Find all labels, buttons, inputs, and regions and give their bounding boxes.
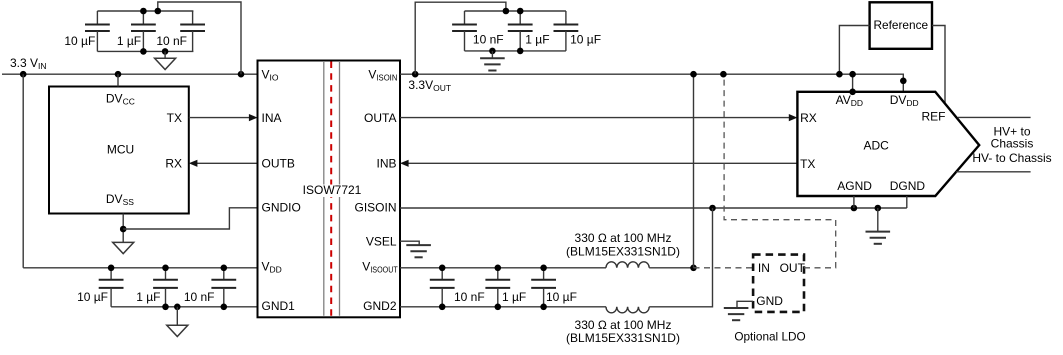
svg-text:GND1: GND1 xyxy=(262,299,296,313)
wire DVCC stub xyxy=(117,74,119,86)
svg-text:RX: RX xyxy=(165,157,182,171)
svg-text:330 Ω at 100 MHz: 330 Ω at 100 MHz xyxy=(575,318,672,332)
pin label VSEL xyxy=(366,234,397,248)
pin label VIO xyxy=(262,67,279,82)
svg-text:OUT: OUT xyxy=(780,261,806,275)
reference U4 box xyxy=(870,2,932,49)
capacitor C5 1uF VDD xyxy=(136,268,178,307)
isolation barrier red dashed line xyxy=(330,62,332,317)
ground output cap bank earth xyxy=(480,51,505,71)
ground LDO earth xyxy=(724,308,749,320)
junction output bank bottom C8 xyxy=(517,48,524,55)
pin label REF xyxy=(922,110,946,124)
svg-text:RX: RX xyxy=(800,111,817,125)
value label FB2 line2 xyxy=(566,331,680,345)
pin label ADC RX xyxy=(800,111,817,125)
svg-text:GNDIO: GNDIO xyxy=(262,201,301,215)
value label FB1 line2 xyxy=(566,244,680,258)
svg-text:OUTB: OUTB xyxy=(262,157,295,171)
junction input bank bottom C2 xyxy=(140,48,147,55)
svg-text:GISOIN: GISOIN xyxy=(354,201,396,215)
pin label DVSS xyxy=(106,192,134,207)
svg-text:10 µF: 10 µF xyxy=(77,290,108,304)
junction VISOOUT C12 xyxy=(540,265,547,272)
label ADC xyxy=(864,138,890,152)
wire AVDD stub xyxy=(852,74,854,92)
junction input bank top C2 xyxy=(140,8,147,15)
junction AVDD at rail xyxy=(849,71,856,78)
junction VDD C6 xyxy=(221,265,228,272)
wire output cap bank top bus xyxy=(465,10,566,12)
junction output bank top feed xyxy=(503,8,510,15)
junction 3.3VOUT Reference branch xyxy=(836,71,843,78)
pin label MCU RX xyxy=(165,157,182,171)
ground VSEL earth xyxy=(406,245,431,257)
wire dashed LDO OUT to 3.3VOUT xyxy=(724,74,836,268)
svg-text:10 nF: 10 nF xyxy=(184,290,215,304)
wire VSEL to ground xyxy=(400,241,419,245)
value label FB1 line1 xyxy=(575,231,672,245)
svg-text:AGND: AGND xyxy=(837,179,872,193)
svg-text:OUTA: OUTA xyxy=(364,111,396,125)
ground GND1 bank xyxy=(167,307,188,337)
isolation barrier left line xyxy=(323,62,325,316)
junction 3.3VIN / VDD branch xyxy=(20,71,27,78)
wire FB2 out to GISOIN xyxy=(649,208,712,307)
label HV+ to Chassis xyxy=(991,124,1034,150)
junction GND2 C10 xyxy=(439,304,446,311)
pin label GISOIN xyxy=(354,201,396,215)
svg-text:1 µF: 1 µF xyxy=(117,34,141,48)
wire OUTA to ADC RX xyxy=(400,114,797,121)
capacitor C1 10uF input xyxy=(64,11,109,51)
wire AGND stub xyxy=(853,196,855,208)
junction VDD C4 xyxy=(108,265,115,272)
ferrite bead FB1 VISOOUT xyxy=(606,262,649,268)
svg-text:VSEL: VSEL xyxy=(366,234,397,248)
net GND2 rail xyxy=(400,306,606,308)
svg-text:IN: IN xyxy=(758,261,770,275)
wire dashed bead to LDO IN xyxy=(694,267,754,269)
svg-text:DGND: DGND xyxy=(890,179,926,193)
capacitor C3 10nF input xyxy=(156,11,205,51)
ferrite bead FB2 GND2 xyxy=(606,307,649,313)
wire input cap bank feed xyxy=(158,2,241,74)
ground input cap bank xyxy=(155,51,176,69)
capacitor C2 1uF input xyxy=(117,11,156,51)
net VDD rail xyxy=(23,267,257,269)
pin label OUTA xyxy=(364,111,396,125)
pin label LDO IN xyxy=(758,261,770,275)
junction input bank bottom gnd stub xyxy=(162,48,169,55)
junction 3.3VOUT riser xyxy=(690,71,697,78)
wire 3.3VIN down to VDD rail xyxy=(22,74,24,268)
wire ADC TX to INB xyxy=(400,160,797,167)
svg-text:1 µF: 1 µF xyxy=(502,290,526,304)
net GND1 rail xyxy=(111,306,257,308)
ground ADC earth xyxy=(866,208,891,244)
pin label GND1 xyxy=(262,299,296,313)
svg-text:HV- to Chassis: HV- to Chassis xyxy=(972,151,1051,165)
pin label INB xyxy=(376,157,396,171)
ground DVSS xyxy=(113,242,134,253)
junction VISOOUT C11 xyxy=(495,265,502,272)
capacitor C7 10nF VISOIN xyxy=(452,11,503,51)
pin label DVCC xyxy=(106,91,135,106)
svg-text:ISOW7721: ISOW7721 xyxy=(303,183,362,197)
svg-text:10 nF: 10 nF xyxy=(156,34,187,48)
svg-text:1 µF: 1 µF xyxy=(525,32,549,46)
svg-text:MCU: MCU xyxy=(107,143,134,157)
node 3.3VOUT label xyxy=(408,78,451,93)
junction AVDD at ADC edge xyxy=(849,89,856,96)
pin label ADC TX xyxy=(800,157,815,171)
pin label VISOOUT xyxy=(362,260,398,275)
svg-text:10 nF: 10 nF xyxy=(473,32,504,46)
svg-text:TX: TX xyxy=(800,157,815,171)
pin label VISOIN xyxy=(368,67,397,82)
isolation barrier right line xyxy=(339,62,341,316)
svg-text:10 µF: 10 µF xyxy=(64,34,95,48)
pin label LDO OUT xyxy=(780,261,806,275)
node 3.3VIN label xyxy=(10,56,47,71)
pin label DVDD xyxy=(890,93,919,108)
svg-text:ADC: ADC xyxy=(864,138,890,152)
svg-text:(BLM15EX331SN1D): (BLM15EX331SN1D) xyxy=(566,331,680,345)
pin label DGND xyxy=(890,179,926,193)
net VISOOUT rail xyxy=(400,267,606,269)
wire DGND stub xyxy=(906,196,908,208)
junction VDD C5 xyxy=(162,265,169,272)
wire OUTB to RX xyxy=(189,160,258,167)
junction 3.3VIN at MCU DVCC xyxy=(115,71,122,78)
pin label GND2 xyxy=(363,299,397,313)
junction 3.3VIN at input cap bank feed xyxy=(238,71,245,78)
svg-text:Chassis: Chassis xyxy=(991,136,1034,150)
label Reference xyxy=(874,18,929,32)
capacitor C9 10uF VISOIN xyxy=(554,11,602,51)
junction input bank top feed xyxy=(155,8,162,15)
wire input cap bank top bus xyxy=(97,10,193,12)
net GISOIN to ADC grounds xyxy=(400,207,907,209)
capacitor C4 10uF VDD xyxy=(77,268,123,307)
net 3.3VIN rail xyxy=(2,73,258,75)
junction GND2 C12 xyxy=(540,304,547,311)
junction FB1 out / riser xyxy=(690,265,697,272)
value label FB2 line1 xyxy=(575,318,672,332)
svg-text:10 nF: 10 nF xyxy=(454,290,485,304)
junction GISOIN at AGND xyxy=(851,205,858,212)
svg-text:INA: INA xyxy=(262,111,282,125)
wire VISOOUT riser to 3.3VOUT xyxy=(693,74,695,268)
junction GND1 C6 xyxy=(221,304,228,311)
junction VISOOUT C10 xyxy=(439,265,446,272)
junction output bank bottom gnd stub xyxy=(489,48,496,55)
wire output cap bank feed xyxy=(415,2,506,74)
wire LDO GND lead xyxy=(737,301,753,308)
svg-text:GND: GND xyxy=(756,294,783,308)
junction 3.3VOUT cap bank feed xyxy=(412,71,419,78)
junction DVSS / GNDIO xyxy=(120,226,127,233)
wire GNDIO to DVSS ground xyxy=(123,208,257,229)
junction GND1 C5 xyxy=(162,304,169,311)
junction DVDD stub xyxy=(900,78,907,85)
svg-text:330 Ω at 100 MHz: 330 Ω at 100 MHz xyxy=(575,231,672,245)
wire TX to INA xyxy=(189,114,258,121)
label ISOW7721 xyxy=(301,183,363,197)
svg-text:10 µF: 10 µF xyxy=(546,290,577,304)
svg-text:(BLM15EX331SN1D): (BLM15EX331SN1D) xyxy=(566,244,680,258)
pin label MCU TX xyxy=(167,111,182,125)
wire Reference to 3.3VOUT xyxy=(839,26,869,75)
pin label VDD xyxy=(262,260,282,275)
svg-text:10 µF: 10 µF xyxy=(570,32,601,46)
capacitor C10 10nF VISOOUT xyxy=(430,268,485,307)
capacitor C12 10uF VISOOUT xyxy=(531,268,577,307)
junction GND2 C11 xyxy=(495,304,502,311)
isolator U1 ISOW7721 body xyxy=(258,61,401,318)
wire input cap bank bottom bus xyxy=(97,50,193,52)
label Optional LDO xyxy=(734,330,805,344)
pin label OUTB xyxy=(262,157,295,171)
junction GISOIN / GND2 bead xyxy=(709,205,716,212)
wire HV+ output xyxy=(958,116,1031,118)
svg-text:Reference: Reference xyxy=(874,18,929,32)
junction GND1 gnd stub xyxy=(174,304,181,311)
capacitor C8 1uF VISOIN xyxy=(508,11,550,51)
svg-text:1 µF: 1 µF xyxy=(136,290,160,304)
pin label INA xyxy=(262,111,282,125)
junction output bank top C8 xyxy=(517,8,524,15)
wire FB1 out xyxy=(649,267,693,269)
svg-text:REF: REF xyxy=(922,110,946,124)
label HV- to Chassis xyxy=(972,151,1051,165)
ADC U5 body xyxy=(797,92,979,196)
label MCU xyxy=(107,143,134,157)
MCU block xyxy=(49,87,189,214)
junction GISOIN at earth stub xyxy=(875,205,882,212)
pin label AGND xyxy=(837,179,872,193)
capacitor C11 1uF VISOOUT xyxy=(485,268,526,307)
capacitor C6 10nF VDD xyxy=(184,268,236,307)
net 3.3VOUT rail xyxy=(400,74,903,92)
wire Reference to ADC REF xyxy=(932,26,945,104)
junction 3.3VOUT LDO branch xyxy=(720,71,727,78)
pin label GNDIO xyxy=(262,201,301,215)
svg-text:INB: INB xyxy=(376,157,396,171)
svg-text:TX: TX xyxy=(167,111,182,125)
pin label LDO GND xyxy=(756,294,783,308)
pin label AVDD xyxy=(836,93,863,108)
wire HV- output xyxy=(956,171,1030,173)
regulator U3 optional LDO box xyxy=(753,255,804,312)
wire output cap bank bottom bus xyxy=(465,50,566,52)
svg-text:GND2: GND2 xyxy=(363,299,397,313)
wire DVSS to ground xyxy=(122,214,124,243)
svg-text:Optional LDO: Optional LDO xyxy=(734,330,805,344)
